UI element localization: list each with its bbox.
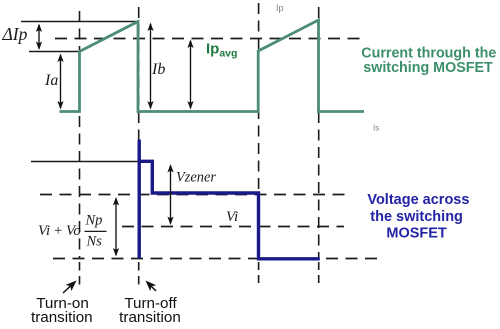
zero level dashed line [53,258,382,260]
vertical dashed line: turn-off 2 [318,7,320,258]
svg-text:Is: Is [373,124,379,133]
arrow Vzener [167,164,173,225]
svg-text:Ia: Ia [44,72,58,89]
top peak level line [21,21,139,23]
Vi dashed level line [122,226,344,228]
current waveform (green) [60,20,365,112]
svg-text:Np: Np [85,213,103,229]
svg-text:Ib: Ib [151,61,165,78]
svg-text:Vi + Vo: Vi + Vo [38,223,81,239]
svg-text:ΔIp: ΔIp [2,24,28,44]
arrow Vi+Vo [113,197,119,257]
svg-text:Vi: Vi [226,209,238,225]
arrow Ib [147,23,153,110]
arrow Ip_avg [187,40,193,110]
flat-top dashed level line [40,194,348,196]
vertical dashed line: turn-off 1 [138,7,140,258]
voltage waveform spike (blue) [137,140,140,259]
Ip_avg dashed level line [55,38,367,40]
svg-text:Ns: Ns [86,234,103,250]
svg-text:transition: transition [119,309,181,326]
arrow dIp [36,24,42,51]
svg-text:the switching: the switching [370,209,463,225]
svg-text:transition: transition [31,309,93,326]
arrow Ia [57,54,63,110]
turn-off pointer arrow [146,281,157,292]
svg-text:Ip: Ip [276,3,284,13]
vertical dashed line: turn-on 1 [79,11,81,258]
vertical dashed line: turn-on 2 [258,3,260,258]
svg-text:MOSFET: MOSFET [386,225,447,241]
turn-on pointer arrow [63,281,77,294]
svg-text:Vzener: Vzener [176,170,216,186]
svg-text:Voltage across: Voltage across [367,192,469,208]
zener clamp level line [31,161,139,163]
svg-text:switching MOSFET: switching MOSFET [363,60,493,76]
Ia level line [29,51,80,53]
voltage waveform (blue) [139,161,320,258]
